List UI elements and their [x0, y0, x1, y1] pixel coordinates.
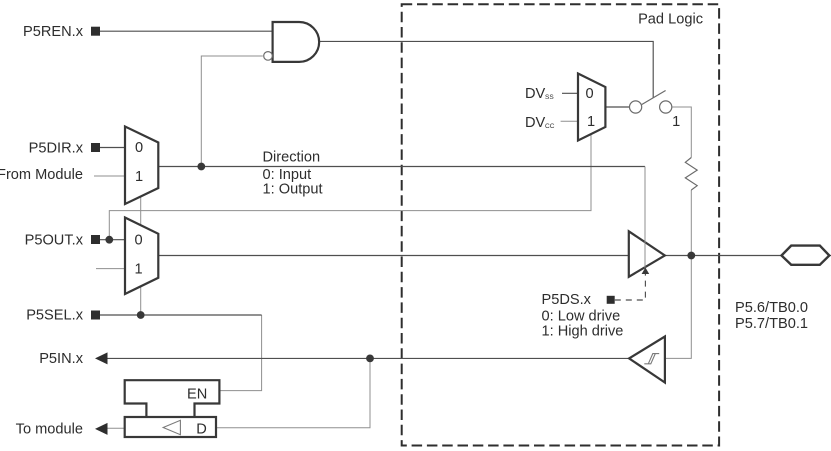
- svg-text:P5DS.x: P5DS.x: [542, 292, 592, 308]
- svg-text:Direction: Direction: [263, 150, 321, 166]
- svg-text:EN: EN: [187, 387, 207, 403]
- svg-text:DV: DV: [525, 115, 546, 131]
- svg-text:P5.6/TB0.0: P5.6/TB0.0: [735, 300, 808, 316]
- svg-text:1: 1: [135, 169, 143, 185]
- svg-text:1: 1: [587, 114, 595, 130]
- svg-text:P5DIR.x: P5DIR.x: [29, 141, 84, 157]
- svg-text:0: 0: [135, 140, 143, 156]
- svg-text:P5REN.x: P5REN.x: [23, 24, 84, 40]
- svg-text:P5.7/TB0.1: P5.7/TB0.1: [735, 316, 808, 332]
- svg-text:0: Low drive: 0: Low drive: [542, 309, 621, 325]
- svg-text:SS: SS: [545, 94, 554, 101]
- svg-text:0: 0: [585, 86, 593, 102]
- svg-text:DV: DV: [525, 86, 546, 102]
- svg-text:P5OUT.x: P5OUT.x: [25, 233, 84, 249]
- svg-text:1: High drive: 1: High drive: [542, 324, 624, 340]
- svg-text:To module: To module: [16, 422, 83, 438]
- svg-text:Pad Logic: Pad Logic: [638, 12, 703, 28]
- svg-text:P5IN.x: P5IN.x: [39, 351, 83, 367]
- svg-text:D: D: [196, 422, 207, 438]
- svg-text:1: 1: [134, 262, 142, 278]
- svg-text:1: Output: 1: Output: [263, 181, 323, 197]
- svg-text:CC: CC: [545, 123, 555, 130]
- svg-text:From Module: From Module: [0, 167, 83, 183]
- svg-text:1: 1: [672, 114, 680, 130]
- svg-text:P5SEL.x: P5SEL.x: [26, 308, 83, 324]
- svg-text:0: 0: [134, 233, 142, 249]
